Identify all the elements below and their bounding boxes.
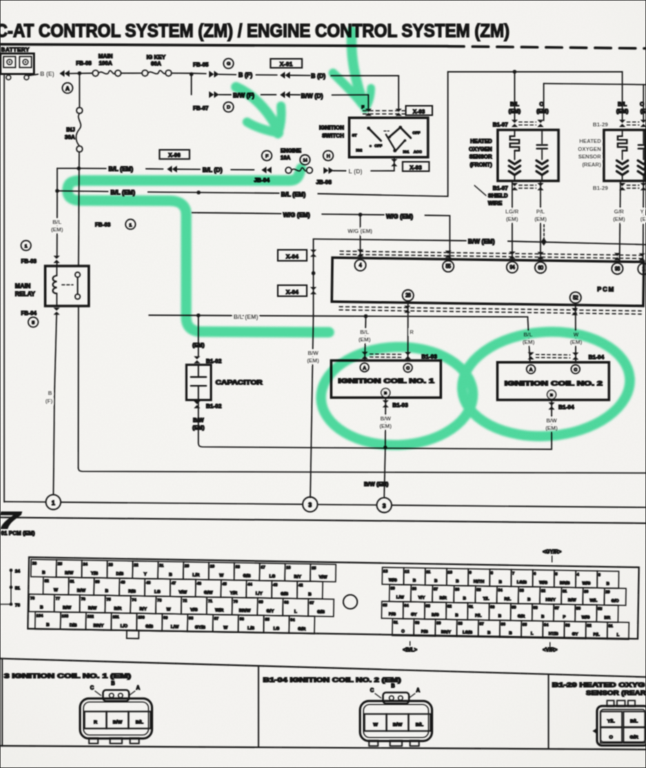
svg-text:FB-07: FB-07	[193, 106, 209, 112]
wire B/W continues to ground ref 3	[310, 315, 313, 498]
svg-text:X-06: X-06	[168, 153, 180, 159]
svg-text:G/Y: G/Y	[266, 608, 274, 613]
svg-text:(EM): (EM)	[307, 359, 319, 365]
connector face heated oxygen sensor rear	[597, 706, 646, 746]
svg-text:W/R: W/R	[215, 607, 224, 612]
heated oxygen sensor front	[498, 130, 559, 181]
svg-text:X-04: X-04	[286, 290, 299, 296]
svg-text:B/L: B/L	[360, 330, 370, 336]
label B1-02 upper	[194, 356, 200, 363]
svg-text:IGNITION COIL NO. 2: IGNITION COIL NO. 2	[505, 381, 604, 387]
panel frame left	[1, 659, 3, 746]
svg-text:B/W: B/W	[113, 720, 123, 726]
wire W from pin 52 to coil2 terminal C	[575, 303, 577, 362]
svg-text:BR/Y: BR/Y	[441, 629, 451, 634]
heater element front sensor	[514, 130, 516, 136]
svg-text:P/G: P/G	[389, 611, 396, 616]
svg-text:7: 7	[512, 571, 514, 576]
svg-text:Y: Y	[640, 210, 644, 216]
bus rail B1-01 PCM	[0, 517, 646, 523]
svg-text:ST: ST	[352, 134, 358, 138]
svg-text:28: 28	[406, 293, 411, 299]
svg-text:B/R: B/R	[114, 606, 122, 611]
node capacitor top junction	[197, 314, 201, 318]
wire O(EM) feed from right edge	[544, 84, 646, 85]
svg-text:B/G: B/G	[432, 612, 439, 617]
svg-text:(EM): (EM)	[570, 340, 582, 346]
svg-text:W/G (EM): W/G (EM)	[386, 214, 413, 221]
svg-text:HEATED: HEATED	[470, 139, 492, 145]
svg-text:B: B	[498, 613, 501, 618]
svg-text:C-AT CONTROL SYSTEM (ZM) / ENG: C-AT CONTROL SYSTEM (ZM) / ENGINE CONTRO…	[0, 20, 510, 41]
capacitor	[186, 365, 211, 400]
ring 5 FB-04	[28, 317, 38, 327]
svg-text:LG/B: LG/B	[463, 630, 473, 635]
svg-text:B/W (D): B/W (D)	[301, 93, 323, 100]
svg-text:G/B: G/B	[317, 609, 325, 614]
panel divider 2	[548, 674, 550, 748]
svg-text:B (E): B (E)	[40, 71, 54, 78]
svg-text:LG: LG	[273, 626, 280, 631]
svg-text:SWITCH: SWITCH	[322, 134, 344, 140]
svg-text:(E: (E	[640, 217, 646, 223]
ground rail with reference rings	[4, 501, 46, 503]
wire B/L(EM) to relay coil	[56, 191, 58, 256]
svg-text:W/G: W/G	[539, 580, 547, 585]
svg-text:B/Y: B/Y	[294, 574, 301, 579]
svg-text:JB-08: JB-08	[316, 180, 332, 186]
svg-text:(EM): (EM)	[506, 217, 518, 223]
svg-text:R: R	[410, 330, 414, 336]
svg-text:INJ: INJ	[66, 128, 75, 134]
svg-text:Y/R: Y/R	[230, 590, 238, 595]
svg-text:V/G: V/G	[190, 607, 198, 612]
panel divider 1	[258, 666, 260, 747]
svg-text:HT/B: HT/B	[549, 631, 559, 636]
svg-text:87: 87	[479, 621, 483, 626]
svg-text:B1-04 IGNITION COIL NO. 2 (EM): B1-04 IGNITION COIL NO. 2 (EM)	[263, 677, 401, 684]
svg-text:B: B	[169, 572, 172, 577]
label X-03 connector box lower	[403, 162, 430, 171]
PCM connector pinout grid	[28, 557, 639, 647]
svg-text:WIRE: WIRE	[488, 201, 502, 207]
svg-text:17: 17	[261, 564, 265, 569]
svg-text:P/L: P/L	[475, 613, 482, 618]
svg-text:97: 97	[214, 616, 218, 621]
svg-text:B/W (EM): B/W (EM)	[468, 239, 495, 246]
svg-text:B/R: B/R	[440, 595, 447, 600]
svg-text:10A: 10A	[281, 156, 291, 162]
panel frame bottom	[0, 746, 646, 750]
svg-text:FB-04: FB-04	[21, 311, 37, 317]
svg-text:(EM): (EM)	[192, 343, 204, 349]
svg-text:L/W: L/W	[171, 624, 180, 629]
wire B/L drop to coil1 terminal A	[365, 316, 366, 360]
svg-text:1: 1	[129, 222, 132, 228]
svg-text:O: O	[609, 735, 613, 741]
main relay	[45, 266, 89, 306]
panel frame top	[0, 659, 646, 678]
svg-text:B/W: B/W	[380, 417, 392, 423]
svg-text:(FRONT): (FRONT)	[470, 162, 492, 168]
wire Y/L to PCM edge pin	[642, 181, 645, 262]
svg-text:HB/Y: HB/Y	[546, 597, 556, 602]
svg-text:(EM): (EM)	[509, 109, 521, 115]
svg-text:T/L: T/L	[483, 596, 490, 601]
svg-text:104: 104	[36, 613, 43, 618]
label X-01 connector box	[271, 59, 303, 68]
highlighter trace B/L feed path	[68, 169, 330, 333]
node W/G pin4 branch	[358, 213, 362, 217]
svg-text:B: B	[528, 597, 531, 602]
svg-text:O: O	[539, 102, 544, 108]
svg-text:X-03: X-03	[413, 109, 425, 115]
svg-text:B/L (EM): B/L (EM)	[281, 192, 306, 199]
svg-text:B: B	[308, 592, 311, 597]
svg-text:G/R: G/R	[298, 626, 307, 631]
svg-text:103: 103	[62, 613, 69, 618]
svg-text:W/G: W/G	[582, 614, 590, 619]
wire W/G drop to pin 55	[449, 216, 451, 260]
svg-text:L (D): L (D)	[349, 168, 363, 175]
svg-text:B: B	[606, 581, 609, 586]
svg-text:FB-03: FB-03	[95, 223, 111, 229]
svg-text:SENSOR: SENSOR	[469, 155, 492, 161]
svg-text:HEATED: HEATED	[579, 139, 601, 145]
wire ignition switch output L(D)	[393, 157, 395, 171]
svg-text:B: B	[413, 578, 416, 583]
PCM pin 28	[402, 290, 413, 301]
svg-text:B: B	[48, 391, 52, 397]
svg-text:ACC: ACC	[414, 150, 422, 154]
svg-text:B: B	[105, 588, 108, 593]
svg-text:HI/TH: HI/TH	[473, 579, 484, 584]
ground ref ring 3a	[303, 497, 318, 512]
wire B/L(EM) riser to sensors	[447, 72, 449, 197]
wire B/L(EM) row1 from INJ feed	[77, 167, 81, 171]
svg-text:70: 70	[233, 599, 237, 604]
svg-text:G/R: G/R	[518, 613, 525, 618]
svg-text:B: B	[42, 570, 45, 575]
svg-text:90: 90	[415, 620, 419, 625]
wire W/G drop to pin 4	[359, 215, 361, 260]
svg-text:B: B	[434, 578, 437, 583]
svg-text:GY/B: GY/B	[195, 624, 206, 629]
heated oxygen sensor rear	[604, 130, 646, 181]
svg-text:SENSOR (REAR: SENSOR (REAR	[586, 690, 646, 697]
connector ring A	[62, 83, 72, 93]
svg-text:RELAY: RELAY	[15, 291, 35, 298]
svg-text:101: 101	[113, 614, 120, 619]
ground ref ring 3b	[377, 498, 392, 513]
svg-text:B/L: B/L	[416, 722, 424, 728]
svg-text:OFF: OFF	[413, 131, 421, 135]
svg-text:B/W: B/W	[393, 722, 403, 728]
svg-text:B: B	[487, 630, 490, 635]
svg-text:R/B: R/B	[128, 589, 135, 594]
svg-text:B/L (EM): B/L (EM)	[234, 314, 259, 321]
svg-text:3 IGNITION COIL NO. 1 (EM): 3 IGNITION COIL NO. 1 (EM)	[4, 673, 131, 680]
svg-text:G/W: G/W	[204, 590, 214, 595]
svg-text:B1-07: B1-07	[493, 122, 508, 128]
wire B/L(EM) row2	[57, 190, 108, 193]
svg-text:PCM: PCM	[597, 286, 615, 293]
svg-text:01 PCM (EM): 01 PCM (EM)	[1, 531, 35, 537]
label SHIELD WIRE with leader	[475, 186, 487, 196]
PCM pin 52	[570, 292, 581, 303]
svg-text:(EM): (EM)	[534, 217, 546, 223]
svg-text:B (F): B (F)	[239, 72, 253, 79]
heater element rear sensor	[621, 130, 623, 136]
wire B/L(EM) sensor feed rail	[448, 71, 622, 73]
node X-04 junction	[312, 271, 316, 275]
wire B(F) row with chevrons	[209, 71, 219, 78]
svg-text:CAPACITOR: CAPACITOR	[216, 381, 264, 387]
svg-text:77: 77	[56, 596, 60, 601]
svg-text:X-01: X-01	[280, 62, 293, 68]
svg-text:B1-07: B1-07	[493, 186, 508, 192]
svg-text:B/L (D): B/L (D)	[203, 167, 223, 174]
svg-text:BR: BR	[604, 615, 610, 620]
svg-text:OXYGEN: OXYGEN	[578, 147, 601, 153]
svg-text:A: A	[65, 86, 69, 92]
svg-text:67: 67	[310, 600, 314, 605]
svg-text:L: L	[294, 609, 297, 614]
title underline rule	[0, 44, 448, 46]
svg-text:(EM): (EM)	[613, 217, 625, 223]
svg-text:L/R: L/R	[193, 572, 201, 577]
PCM pin 94	[507, 262, 518, 273]
svg-text:Y: Y	[144, 571, 147, 576]
svg-text:W/G (EM): W/G (EM)	[348, 229, 373, 235]
svg-text:D/B: D/B	[116, 571, 123, 576]
svg-text:G/B: G/B	[281, 591, 289, 596]
svg-text:B: B	[509, 630, 512, 635]
svg-text:100A: 100A	[99, 61, 112, 67]
svg-text:<B/L>: <B/L>	[403, 648, 417, 654]
highlighter arrow to engine fuse	[236, 87, 276, 126]
node coil1 A branch junction	[364, 314, 368, 318]
sensor element front sensor	[541, 130, 543, 144]
svg-text:(EM): (EM)	[616, 109, 628, 115]
svg-text:B/W (EM): B/W (EM)	[364, 482, 389, 488]
svg-text:O: O	[640, 102, 645, 108]
svg-text:ENGINE: ENGINE	[281, 149, 302, 155]
svg-text:B/W: B/W	[88, 605, 97, 610]
PCM pin 93	[612, 263, 623, 274]
svg-text:L/B: L/B	[247, 625, 254, 630]
label X-04 connector box lower	[278, 285, 307, 296]
svg-text:B: B	[40, 604, 43, 609]
svg-text:A: A	[416, 688, 420, 694]
svg-text:L/O: L/O	[120, 623, 128, 628]
svg-text:B1-02: B1-02	[206, 404, 222, 410]
svg-text:W/G: W/G	[582, 580, 590, 585]
svg-text:B1-29 HEATED OXYG: B1-29 HEATED OXYG	[552, 682, 645, 689]
wire B(F) relay coil to ground ref 1	[55, 315, 57, 392]
svg-text:SENSOR: SENSOR	[578, 155, 601, 161]
svg-text:B/L: B/L	[630, 719, 638, 725]
svg-text:B/L: B/L	[52, 220, 62, 226]
svg-text:(EM): (EM)	[536, 109, 548, 115]
label B1-04 connector strip	[528, 352, 534, 359]
svg-text:LG: LG	[154, 589, 161, 594]
PCM pin 4	[355, 260, 366, 271]
svg-text:1: 1	[25, 244, 28, 250]
sensor element rear sensor	[643, 130, 645, 144]
svg-text:Y/B: Y/B	[91, 571, 98, 576]
svg-text:IGNITION: IGNITION	[319, 126, 344, 132]
svg-text:B/W: B/W	[63, 605, 72, 610]
svg-text:D/B: D/B	[69, 622, 76, 627]
wire branch link row1 to row2	[57, 167, 79, 169]
shield wire dashed drain	[543, 225, 545, 241]
svg-text:<GY/R>: <GY/R>	[543, 550, 562, 556]
svg-text:(EM): (EM)	[522, 340, 534, 346]
highlighter arrow to ignition switch	[352, 31, 365, 107]
svg-text:C: C	[370, 688, 374, 694]
svg-text:B: B	[541, 614, 544, 619]
svg-text:IG KEY: IG KEY	[147, 55, 166, 61]
wire B/W from capacitor to ground rail	[198, 400, 551, 449]
svg-text:IGNITION COIL NO. 1: IGNITION COIL NO. 1	[338, 379, 435, 385]
svg-text:BR/Y: BR/Y	[93, 623, 103, 628]
node row2 left junction	[55, 189, 59, 193]
svg-text:L/W: L/W	[396, 594, 404, 599]
svg-text:B/W: B/W	[308, 351, 320, 357]
svg-text:C: C	[90, 686, 94, 692]
ignition switch	[349, 118, 428, 157]
svg-text:93: 93	[615, 266, 620, 272]
svg-text:FB-05: FB-05	[193, 63, 209, 69]
wire R from pin 28 to coil1 terminal C	[407, 301, 409, 361]
svg-text:20: 20	[185, 563, 189, 568]
svg-text:P/L: P/L	[593, 632, 600, 637]
svg-text:B/L: B/L	[136, 720, 144, 726]
svg-text:R: R	[94, 720, 98, 726]
connector face ignition coil no2	[360, 701, 432, 741]
label B1-03 connector strip	[362, 352, 368, 359]
svg-text:R/L: R/L	[504, 596, 511, 601]
svg-text:W/L: W/L	[590, 598, 598, 603]
svg-text:B: B	[463, 596, 466, 601]
svg-text:LG/B: LG/B	[517, 579, 527, 584]
wire B/L drop to rear sensor	[621, 72, 623, 122]
label ignition switch connector X-03 upper	[363, 110, 405, 112]
svg-text:B (D): B (D)	[311, 73, 326, 80]
svg-text:V/W: V/W	[319, 574, 328, 579]
svg-text:60: 60	[538, 265, 543, 271]
svg-text:52: 52	[573, 295, 578, 301]
svg-text:B/W: B/W	[77, 588, 86, 593]
connector face ignition coil no1	[80, 699, 152, 739]
svg-text:B1-04: B1-04	[589, 355, 605, 361]
svg-text:OXYGEN: OXYGEN	[469, 147, 492, 153]
svg-text:B/L: B/L	[618, 102, 628, 108]
svg-text:B: B	[46, 622, 49, 627]
wire G/R(EM) to PCM pin 93	[620, 181, 621, 262]
node capacitor branch junction	[197, 191, 201, 195]
svg-text:P: P	[563, 614, 566, 619]
svg-text:37: 37	[433, 586, 437, 591]
wire B/W(EM) shield row	[313, 239, 466, 241]
svg-text:B/L (EM): B/L (EM)	[109, 166, 134, 173]
svg-text:P/B: P/B	[421, 629, 428, 634]
grid mounting tab	[127, 630, 139, 638]
wire coil1 B/W down to ground ref 3	[384, 448, 385, 497]
svg-text:B: B	[391, 684, 395, 690]
wire INJ output down to main relay switch	[78, 152, 81, 266]
svg-text:55: 55	[446, 264, 451, 270]
wire B/W(EM) from coil1 B	[384, 398, 386, 448]
wire W/G(EM) row to PCM	[192, 212, 199, 214]
svg-text:W: W	[373, 722, 378, 728]
svg-text:W/G: W/G	[389, 577, 397, 582]
svg-text:L/Y: L/Y	[256, 591, 263, 596]
svg-text:G: G	[227, 61, 231, 67]
svg-text:(F): (F)	[45, 399, 52, 405]
svg-text:MAIN: MAIN	[15, 283, 31, 290]
svg-text:51: 51	[15, 586, 20, 591]
svg-text:10: 10	[448, 569, 452, 574]
svg-text:(EM): (EM)	[51, 228, 63, 234]
wire O(EM) rear drop	[643, 85, 645, 122]
wire FB-07 branch B/W(F)	[190, 74, 192, 94]
svg-text:100: 100	[138, 615, 145, 620]
wire B/W(EM) via X-04 to ground	[312, 239, 314, 315]
node front sensor B/L tap	[513, 70, 517, 74]
svg-text:Y/L: Y/L	[607, 719, 615, 725]
node coil1 ground junction	[383, 446, 387, 450]
svg-text:30: 30	[584, 589, 588, 594]
wire battery negative to ground rail	[3, 76, 5, 503]
svg-text:5: 5	[32, 320, 35, 326]
svg-text:(EM): (EM)	[379, 424, 391, 430]
svg-text:BR/W: BR/W	[239, 608, 251, 613]
svg-text:GY: GY	[572, 631, 578, 636]
svg-text:B/W: B/W	[546, 419, 558, 425]
PCM pin 55	[443, 261, 454, 272]
wire B/L corner drop to coil2 terminal A	[528, 317, 530, 362]
svg-text:V/Y: V/Y	[418, 595, 425, 600]
svg-text:BR/B: BR/B	[560, 580, 570, 585]
ignition coil no 1	[331, 361, 441, 398]
svg-text:B: B	[499, 579, 502, 584]
highlighter circle coil 1	[319, 344, 474, 447]
svg-text:B/W: B/W	[568, 597, 576, 602]
svg-text:B1-29: B1-29	[593, 122, 608, 128]
svg-text:102: 102	[87, 614, 94, 619]
svg-text:P/L: P/L	[536, 210, 545, 216]
PCM pin right edge	[638, 263, 646, 274]
svg-text:57: 57	[555, 605, 559, 610]
svg-text:(REAR): (REAR)	[582, 162, 601, 168]
ignition coil no 2	[497, 362, 609, 400]
svg-text:G/B: G/B	[243, 573, 251, 578]
svg-text:B/L: B/L	[510, 102, 520, 108]
svg-text:LG: LG	[269, 573, 276, 578]
wire B/L(EM) coil feed row	[149, 315, 364, 316]
svg-text:B1-03: B1-03	[393, 403, 409, 409]
svg-text:W/G (EM): W/G (EM)	[283, 212, 310, 219]
svg-text:B: B	[111, 681, 115, 687]
page number glyph	[0, 506, 22, 534]
svg-text:OFF: OFF	[375, 144, 383, 148]
svg-text:G/O: G/O	[611, 598, 619, 603]
svg-text:V/W: V/W	[179, 589, 188, 594]
svg-text:(EM): (EM)	[358, 338, 370, 344]
wire B/L drop to front sensor	[514, 72, 516, 121]
